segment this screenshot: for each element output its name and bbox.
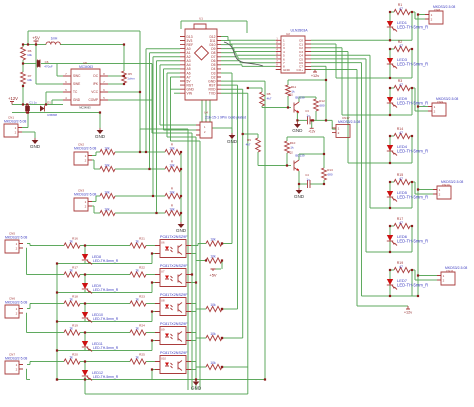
svg-text:VCC: VCC xyxy=(91,90,98,94)
svg-text:CN11: CN11 xyxy=(446,269,454,273)
svg-text:1k: 1k xyxy=(290,146,294,150)
svg-text:47: 47 xyxy=(399,7,403,11)
svg-text:R23: R23 xyxy=(139,295,145,299)
svg-text:U2: U2 xyxy=(286,32,290,36)
svg-text:4k7: 4k7 xyxy=(246,143,251,147)
svg-text:C1 1u: C1 1u xyxy=(29,101,37,105)
svg-text:+5V: +5V xyxy=(209,273,217,278)
svg-text:COMP: COMP xyxy=(88,98,98,102)
svg-text:R18: R18 xyxy=(72,295,78,299)
svg-text:LED-TH-5mm_R: LED-TH-5mm_R xyxy=(397,283,428,288)
svg-text:+12v: +12v xyxy=(308,129,315,133)
svg-text:R16: R16 xyxy=(72,237,78,241)
svg-text:GND: GND xyxy=(176,228,187,233)
svg-text:C6: C6 xyxy=(45,60,49,64)
svg-text:U8: U8 xyxy=(161,299,165,303)
svg-text:GND: GND xyxy=(95,134,106,139)
svg-text:MKDS3/2-5.08: MKDS3/2-5.08 xyxy=(5,301,27,305)
svg-text:+12V: +12V xyxy=(8,96,18,101)
svg-text:10k: 10k xyxy=(169,207,175,211)
svg-text:10k: 10k xyxy=(210,361,216,365)
svg-text:10k: 10k xyxy=(169,190,175,194)
svg-text:MC34063: MC34063 xyxy=(79,106,91,110)
svg-text:CN8: CN8 xyxy=(434,8,440,12)
svg-text:R22: R22 xyxy=(139,266,145,270)
svg-text:R12: R12 xyxy=(319,99,325,103)
svg-text:DC: DC xyxy=(93,74,98,78)
svg-text:PC817X2NSZ9F: PC817X2NSZ9F xyxy=(160,264,188,268)
svg-text:47: 47 xyxy=(399,265,403,269)
svg-text:Q1: Q1 xyxy=(289,93,293,97)
svg-text:+12v: +12v xyxy=(404,311,412,315)
svg-text:TXD: TXD xyxy=(209,92,216,96)
svg-text:10k: 10k xyxy=(104,208,110,212)
svg-text:10k: 10k xyxy=(169,163,175,167)
svg-text:ULN2803A: ULN2803A xyxy=(290,29,308,33)
svg-text:10k: 10k xyxy=(210,303,216,307)
svg-text:BD139: BD139 xyxy=(295,154,305,158)
svg-text:GND: GND xyxy=(30,144,41,149)
svg-text:IPK: IPK xyxy=(93,82,99,86)
svg-text:LED-TH-5mm_R: LED-TH-5mm_R xyxy=(93,317,119,321)
svg-text:10k: 10k xyxy=(210,238,216,242)
svg-text:LED-TH-5mm_R: LED-TH-5mm_R xyxy=(397,239,428,244)
svg-text:L1: L1 xyxy=(49,40,53,44)
svg-text:1u: 1u xyxy=(306,114,310,118)
svg-text:C3: C3 xyxy=(305,109,309,113)
svg-text:216-15-1 9Pin Gold-plated: 216-15-1 9Pin Gold-plated xyxy=(205,116,246,120)
svg-text:BD139: BD139 xyxy=(295,96,305,100)
svg-text:PC817X2NSZ9F: PC817X2NSZ9F xyxy=(160,293,188,297)
svg-text:LED-TH-5mm_R: LED-TH-5mm_R xyxy=(397,62,428,67)
svg-text:MKDS3/2-5.08: MKDS3/2-5.08 xyxy=(4,120,26,124)
svg-text:47: 47 xyxy=(399,177,403,181)
svg-text:10k: 10k xyxy=(210,255,216,259)
svg-text:R21: R21 xyxy=(139,237,145,241)
svg-text:MKDS3/2-5.08: MKDS3/2-5.08 xyxy=(5,357,27,361)
svg-text:U10: U10 xyxy=(161,357,166,361)
svg-text:U7: U7 xyxy=(161,270,165,274)
svg-text:10k: 10k xyxy=(169,146,175,150)
svg-text:MC34063: MC34063 xyxy=(79,65,93,69)
svg-text:PC817X2NSZ9F: PC817X2NSZ9F xyxy=(160,322,188,326)
svg-text:10k: 10k xyxy=(210,332,216,336)
svg-text:R8: R8 xyxy=(267,92,271,96)
svg-text:GND: GND xyxy=(191,386,202,391)
svg-text:R9: R9 xyxy=(247,138,251,142)
svg-text:10k: 10k xyxy=(104,191,110,195)
svg-text:LED-TH-5mm_R: LED-TH-5mm_R xyxy=(397,25,428,30)
svg-text:LED-TH-5mm_R: LED-TH-5mm_R xyxy=(397,149,428,154)
svg-text:R10: R10 xyxy=(290,141,296,145)
svg-text:LED-TH-5mm_R: LED-TH-5mm_R xyxy=(93,346,119,350)
svg-text:CN9: CN9 xyxy=(437,100,443,104)
svg-text:R24: R24 xyxy=(139,324,145,328)
svg-text:U1: U1 xyxy=(199,17,203,21)
svg-text:R17: R17 xyxy=(72,266,78,270)
svg-text:SWC: SWC xyxy=(73,74,81,78)
svg-text:R25: R25 xyxy=(139,353,145,357)
svg-text:+12v: +12v xyxy=(311,74,319,78)
svg-text:U6: U6 xyxy=(161,241,165,245)
svg-text:LED-TH-5mm_R: LED-TH-5mm_R xyxy=(397,101,428,106)
svg-text:1N5808: 1N5808 xyxy=(47,113,57,117)
svg-text:1u: 1u xyxy=(306,178,310,182)
svg-text:47: 47 xyxy=(399,83,403,87)
svg-text:R5: R5 xyxy=(128,72,132,76)
svg-text:MKDS3/2-5.08: MKDS3/2-5.08 xyxy=(74,193,96,197)
svg-text:GND: GND xyxy=(73,98,81,102)
svg-text:GND: GND xyxy=(292,128,303,133)
svg-text:PC817X2NSZ9F: PC817X2NSZ9F xyxy=(160,235,188,239)
svg-text:C4: C4 xyxy=(305,173,309,177)
svg-text:10k: 10k xyxy=(104,147,110,151)
svg-text:Q2: Q2 xyxy=(289,151,293,155)
svg-text:+5V: +5V xyxy=(32,36,40,41)
svg-text:47: 47 xyxy=(399,44,403,48)
svg-text:47: 47 xyxy=(399,221,403,225)
svg-text:MKDS3/2-5.08: MKDS3/2-5.08 xyxy=(74,147,96,151)
svg-text:680: 680 xyxy=(319,104,324,108)
svg-text:470uF: 470uF xyxy=(44,65,53,69)
svg-text:4k7: 4k7 xyxy=(267,97,272,101)
svg-text:U4: U4 xyxy=(204,111,208,115)
svg-text:10k: 10k xyxy=(27,78,32,82)
svg-text:LED-TH-5mm_R: LED-TH-5mm_R xyxy=(93,259,119,263)
svg-text:U9: U9 xyxy=(161,328,165,332)
svg-text:R11: R11 xyxy=(291,85,297,89)
svg-text:CN10: CN10 xyxy=(442,183,450,187)
svg-text:R13: R13 xyxy=(327,168,333,172)
svg-text:D1: D1 xyxy=(47,101,51,105)
svg-text:680: 680 xyxy=(327,173,332,177)
svg-text:CO+: CO+ xyxy=(297,68,304,72)
svg-text:PC817X2NSZ9F: PC817X2NSZ9F xyxy=(160,351,188,355)
svg-text:SWE: SWE xyxy=(73,82,80,86)
svg-text:GND: GND xyxy=(294,194,305,199)
svg-text:10k: 10k xyxy=(27,53,32,57)
svg-text:R20: R20 xyxy=(72,353,78,357)
svg-text:R19: R19 xyxy=(72,324,78,328)
svg-text:GND: GND xyxy=(227,139,238,144)
svg-text:MKDS3/2-5.08: MKDS3/2-5.08 xyxy=(5,236,27,240)
svg-text:MKDS3/2-5.08: MKDS3/2-5.08 xyxy=(338,120,360,124)
svg-text:47: 47 xyxy=(399,131,403,135)
svg-text:GND: GND xyxy=(283,68,291,72)
svg-text:1ohm: 1ohm xyxy=(127,77,135,81)
svg-text:10k: 10k xyxy=(104,164,110,168)
svg-text:VIN: VIN xyxy=(187,92,193,96)
svg-text:LED-TH-5mm_R: LED-TH-5mm_R xyxy=(397,195,428,200)
svg-text:LED-TH-5mm_R: LED-TH-5mm_R xyxy=(93,375,119,379)
svg-text:LED-TH-5mm_R: LED-TH-5mm_R xyxy=(93,288,119,292)
svg-text:TC: TC xyxy=(73,90,78,94)
